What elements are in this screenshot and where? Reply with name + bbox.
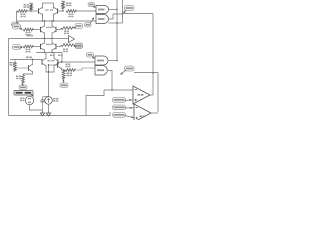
wire G4 out [108,71,112,91]
wire base Q10 [15,68,29,71]
label R12 [16,76,21,80]
resistor R11 vertical [14,62,17,71]
wire bottom right up [109,112,111,116]
oval net label midright [121,66,135,75]
wire r8 link [60,45,62,47]
wire to gate1 [76,10,96,12]
wire Q6 emitter [51,50,52,54]
wire Q6 collector [51,39,53,44]
label Q3 [46,27,49,28]
mid wire [9,38,69,40]
wire bottom edge [9,115,111,117]
wire base Q1 [27,10,39,11]
resistor R7 [23,45,33,48]
label box V1 [14,91,34,97]
wire I1 gnd [48,104,50,111]
resistor R4 horizontal [66,10,76,13]
label TB2 [26,57,32,59]
transistor Q9 [58,61,62,69]
vertical right feedback [152,14,153,96]
transistor Q7 [42,58,46,66]
label R1 [24,4,29,8]
label I1 [53,98,58,102]
oval gnd label mid [60,80,68,88]
resistor R3 vertical [61,1,65,8]
wire Q10 col [32,59,33,65]
wire Q1 emitter [42,14,43,22]
wire G1 out [109,9,118,10]
transistor Q3 [41,26,45,34]
source I1 [45,97,53,105]
oval net label top right [124,6,135,14]
source V1 [25,96,33,104]
oval in label G3 [87,53,95,59]
long emitter rail [17,20,97,22]
label R2 [21,14,26,18]
gate U1A [96,6,109,14]
label Q5 [46,44,49,45]
wire tail down [48,65,49,97]
wire Q2 collector [53,3,55,9]
ground I1 [46,111,50,116]
wire Q8 col [53,53,55,60]
gate U2B [95,66,107,76]
wire G3 out [108,60,118,61]
label Q1 [46,9,49,10]
label R7 [26,49,31,53]
label R3 [66,3,71,7]
wire top feedback [123,13,154,15]
wire I1 stub [43,96,49,98]
vertical bus B [122,0,124,23]
wire Q4 emitter [51,33,52,40]
gate U1B [96,15,109,24]
wire base Q3 [33,29,41,31]
label TB [27,35,33,37]
resistor R1 vertical [29,3,33,10]
row4 rail [36,52,62,54]
wire Q9 emit [62,68,66,71]
wire left rail [10,59,42,61]
label R11 [10,62,15,66]
wire base Q4 right [56,29,61,31]
oval label row2 right [74,24,83,29]
resistor R5 [23,28,33,31]
transistor Q5 [41,43,45,51]
wire base Q6 right [56,46,61,48]
oval label row2 [13,24,23,30]
resistor R12 vertical [22,75,25,84]
oval net label left [12,22,19,27]
ground C1 [40,111,44,116]
resistor R2 horizontal [17,10,27,13]
wire Q7 emit [46,65,54,72]
wire vres1 tap [14,60,16,63]
wire Q1 collector [42,3,44,9]
vertical bus A [116,0,118,61]
wire base Q5 [33,46,41,48]
wire Q7 col [45,53,47,60]
wire Q3 emitter [44,33,45,40]
op-amp U3 [133,86,150,104]
label Q8 [52,60,55,61]
label V1 [20,98,25,102]
wire Q5 emitter [44,50,45,54]
label net a [50,55,55,56]
oval label row3 [13,45,23,50]
label Q6 [50,44,53,45]
wire base Q2 [58,9,64,12]
transistor Q10 [29,64,33,72]
oval label G2 input [85,18,95,28]
resistor R10 [65,69,75,72]
buffer port triangle [69,36,75,43]
gate U2A [95,56,108,65]
label Q4 [50,27,53,28]
top rail [43,2,54,4]
label R6 [64,31,69,35]
transistor Q4 [52,26,56,34]
oval label row3 right dark [74,43,83,49]
oval label opamp1 plus [113,98,134,103]
vertical to opamp2 [157,73,159,113]
wire feedback mid [134,72,158,74]
wire Q2 emitter [53,14,54,22]
wire Q9 col [61,61,62,62]
label R4 [69,14,74,18]
oval label opamp2 minus [113,105,135,110]
wire r6 link [60,28,62,30]
resistor R6 [61,27,73,30]
capacitor C1 [41,97,45,111]
wire base Q9 [48,64,58,65]
wire left drop [16,11,19,21]
transistor Q1 [39,7,43,15]
transistor Q2 [54,7,58,15]
wire r10 [75,68,95,70]
wire Q4 collector [51,20,52,26]
wire Q5 collector [44,39,46,44]
wire Q3 collector [44,20,45,26]
transistor Q8 [54,58,58,66]
op-amp U4 [134,104,151,122]
wire left edge [8,39,10,116]
wire opamp1 out [150,94,153,96]
label R8 [63,49,68,53]
label net b [58,55,63,56]
wire Q10 emit [23,71,33,75]
resistor R9 vertical [62,70,65,79]
oval gnd label left [19,84,27,90]
wire cross 23 [109,22,123,23]
resistor R8 [61,44,73,47]
wire opamp1 minus [104,89,133,90]
label R9 [67,73,72,77]
wire bottom mid up [86,90,104,116]
label R5 [26,32,31,36]
wire G2 out jog [109,13,124,19]
transistor Q6 [52,43,56,51]
label R10 [66,64,71,68]
wire opamp2 out [151,112,158,114]
wire V1 bottom [30,105,43,110]
oval in label G1 [88,3,96,8]
wire row4 out [62,53,95,63]
label Q2 [50,9,53,10]
oval label opamp2 plus [113,113,134,119]
label Q7 [48,60,51,61]
